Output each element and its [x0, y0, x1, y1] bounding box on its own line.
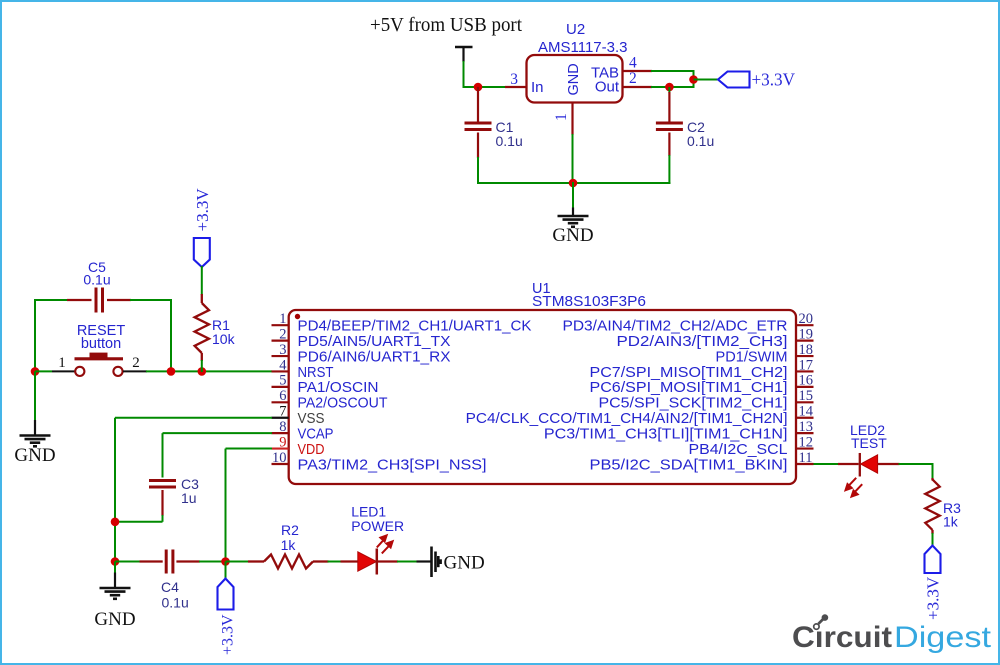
pin 4 TAB stub [622, 70, 652, 72]
svg-text:0.1u: 0.1u [687, 133, 714, 149]
svg-text:PC3/TIM1_CH3[TLI][TIM1_CH1N]: PC3/TIM1_CH3[TLI][TIM1_CH1N] [544, 426, 788, 442]
svg-text:10k: 10k [212, 331, 236, 347]
power symbol +5V bar [455, 46, 473, 49]
capacitor C2 [668, 87, 670, 93]
op-amp U2 regulator AMS1117-3.3 box [527, 55, 623, 103]
wire VDD vertical [225, 449, 227, 563]
wire TAB to corner [651, 70, 694, 72]
svg-text:PC5/SPI_SCK[TIM2_CH1]: PC5/SPI_SCK[TIM2_CH1] [599, 396, 788, 412]
LED2 diode [838, 463, 859, 465]
capacitor C3 [149, 479, 176, 482]
svg-text:5: 5 [279, 373, 286, 389]
svg-text:NRST: NRST [298, 365, 334, 381]
svg-text:TEST: TEST [851, 435, 887, 451]
wire R3 to flag [932, 533, 934, 547]
svg-text:Out: Out [595, 79, 620, 96]
pin 13 PC3/TIM1_CH3[TLI][TIM1_CH1N] [796, 432, 814, 434]
pin 3 stub of U2 [505, 86, 527, 88]
wire R2 to LED1 [328, 561, 342, 563]
wire to +3.3V flag [694, 79, 719, 81]
svg-text:11: 11 [799, 450, 813, 466]
svg-text:R2: R2 [281, 522, 299, 538]
svg-text:VDD: VDD [298, 442, 325, 458]
svg-text:PB5/I2C_SDA[TIM1_BKIN]: PB5/I2C_SDA[TIM1_BKIN] [590, 457, 788, 473]
pin 10 PA3/TIM2_CH3[SPI_NSS] [272, 463, 289, 465]
pin 12 PB4/I2C_SCL [796, 447, 814, 449]
wire C4 to node [199, 561, 227, 563]
svg-text:PC7/SPI_MISO[TIM1_CH2]: PC7/SPI_MISO[TIM1_CH2] [590, 365, 788, 381]
svg-text:2: 2 [279, 326, 286, 342]
node junction C3/VSS [111, 518, 120, 527]
svg-text:18: 18 [799, 342, 814, 358]
wire LED2 to corner [899, 463, 934, 465]
svg-text:GND: GND [14, 445, 55, 466]
wire VCAP to pin 8 [163, 432, 273, 434]
wire C3 bottom to node [162, 515, 164, 522]
svg-text:PD5/AIN5/UART1_TX: PD5/AIN5/UART1_TX [298, 334, 451, 350]
svg-text:1: 1 [553, 113, 570, 121]
svg-text:GND: GND [444, 553, 485, 574]
node junction to +3.3V flag [689, 75, 698, 84]
pin 16 PC6/SPI_MOSI[TIM1_CH1] [796, 386, 814, 388]
LED1 emission arrows [377, 535, 393, 553]
svg-text:4: 4 [629, 55, 637, 72]
svg-text:+5V from USB port: +5V from USB port [370, 14, 522, 36]
power flag +3.3V (bottom right) [925, 546, 941, 574]
svg-text:19: 19 [799, 326, 814, 342]
wire C5 right leg down [170, 299, 172, 372]
svg-text:C4: C4 [161, 579, 179, 595]
wire node to C4 [115, 561, 141, 563]
pin 8 VCAP [272, 432, 289, 434]
svg-text:15: 15 [799, 388, 814, 404]
svg-text:VCAP: VCAP [298, 426, 334, 442]
svg-text:2: 2 [629, 70, 637, 87]
ground symbol GNDPWR (right of LED1) [417, 560, 432, 562]
svg-text:PA1/OSCIN: PA1/OSCIN [298, 380, 379, 396]
svg-text:STM8S103F3P6: STM8S103F3P6 [532, 293, 646, 310]
logo CircuitDigest [792, 614, 992, 654]
ground rail wire [477, 182, 670, 184]
pin 15 PC5/SPI_SCK[TIM2_CH1] [796, 401, 814, 403]
svg-text:PD2/AIN3/[TIM2_CH3]: PD2/AIN3/[TIM2_CH3] [617, 334, 788, 350]
pin 3 PD6/AIN6/UART1_RX [272, 355, 289, 357]
node junction ground rail [569, 179, 578, 188]
svg-text:0.1u: 0.1u [496, 133, 523, 149]
power flag +3.3V above R1 [194, 238, 210, 267]
pin 2 PD5/AIN5/UART1_TX [272, 340, 289, 342]
node junction C5/button [167, 367, 176, 376]
wire LED1 to GND [397, 561, 418, 563]
svg-text:Cırcuit: Cırcuit [792, 621, 892, 654]
node junction at C1/In [474, 83, 483, 92]
ground symbol (top) [572, 208, 574, 217]
svg-text:3: 3 [279, 342, 286, 358]
pin 14 PC4/CLK_CCO/TIM1_CH4/AIN2/[TIM1_CH2N] [796, 417, 814, 419]
svg-text:PD6/AIN6/UART1_RX: PD6/AIN6/UART1_RX [298, 349, 451, 365]
wire U2 GND pin down to rail [572, 134, 574, 184]
pin 18 PD1/SWIM [796, 355, 814, 357]
svg-text:1u: 1u [181, 490, 197, 506]
svg-text:+3.3V: +3.3V [752, 70, 796, 90]
pin 1 PD4/BEEP/TIM2_CH1/UART1_CK [272, 324, 289, 326]
pin 9 VDD [272, 447, 289, 449]
capacitor C5 [36, 299, 68, 301]
svg-text:13: 13 [799, 419, 814, 435]
svg-text:0.1u: 0.1u [162, 595, 189, 611]
wire flag to R1 [201, 266, 203, 295]
wire VDD to pin 9 [226, 448, 273, 450]
svg-text:GND: GND [94, 609, 135, 630]
pin 7 VSS [272, 417, 289, 419]
svg-text:1: 1 [58, 355, 66, 371]
wire node to flag [225, 562, 227, 580]
wire node to R2 [226, 561, 250, 563]
pin 19 PD2/AIN3/[TIM2_CH3] [796, 340, 814, 342]
node junction left [31, 367, 40, 376]
svg-text:PD4/BEEP/TIM2_CH1/UART1_CK: PD4/BEEP/TIM2_CH1/UART1_CK [298, 319, 532, 335]
svg-text:9: 9 [279, 434, 286, 450]
svg-text:7: 7 [279, 404, 286, 420]
pin 1 GND stub down [571, 102, 573, 135]
wire C5 left leg down [34, 299, 36, 372]
svg-text:PD1/SWIM: PD1/SWIM [716, 349, 788, 365]
svg-text:12: 12 [799, 434, 814, 450]
resistor R1 10k [201, 294, 203, 303]
wire vertical TAB-Out join [693, 70, 695, 88]
capacitor C1 [477, 87, 479, 122]
wire VCAP vertical to C3 [162, 433, 164, 477]
svg-text:+3.3V: +3.3V [220, 614, 237, 655]
svg-text:LED1: LED1 [351, 504, 386, 520]
pin 11 PB5/I2C_SDA[TIM1_BKIN] [796, 463, 814, 465]
pin 17 PC7/SPI_MISO[TIM1_CH2] [796, 370, 814, 372]
svg-text:PD3/AIN4/TIM2_CH2/ADC_ETR: PD3/AIN4/TIM2_CH2/ADC_ETR [563, 319, 788, 335]
pin 5 PA1/OSCIN [272, 386, 289, 388]
power flag +3.3V (bottom middle) [218, 579, 234, 610]
op-amp U1 STM8S103F3P6 box [289, 310, 796, 484]
wire +5V to node [463, 61, 465, 88]
wire C1 to ground rail [477, 157, 479, 184]
pin 20 PD3/AIN4/TIM2_CH2/ADC_ETR [796, 324, 814, 326]
svg-text:AMS1117-3.3: AMS1117-3.3 [538, 39, 628, 56]
wire R1 to node [201, 360, 203, 372]
svg-text:+3.3V: +3.3V [924, 576, 943, 620]
resistor R2 1k [248, 560, 264, 562]
svg-text:POWER: POWER [351, 518, 404, 534]
pin 4 NRST [272, 370, 289, 372]
svg-text:GND: GND [552, 225, 593, 246]
LED1 diode [341, 560, 358, 562]
svg-text:20: 20 [799, 311, 814, 327]
svg-text:GND: GND [566, 63, 582, 95]
svg-text:1: 1 [279, 311, 286, 327]
power flag +3.3V (top right) [718, 72, 750, 88]
svg-text:6: 6 [279, 388, 286, 404]
svg-text:1k: 1k [281, 537, 297, 553]
svg-text:PC4/CLK_CCO/TIM1_CH4/AIN2/[TIM: PC4/CLK_CCO/TIM1_CH4/AIN2/[TIM1_CH2N] [466, 411, 788, 427]
node junction R1 bottom [198, 367, 207, 376]
svg-text:1k: 1k [943, 514, 959, 530]
svg-text:0.1u: 0.1u [83, 272, 110, 288]
svg-text:PA2/OSCOUT: PA2/OSCOUT [298, 396, 388, 412]
svg-text:PB4/I2C_SCL: PB4/I2C_SCL [689, 442, 788, 458]
switch SW1 RESET button [52, 370, 75, 372]
svg-text:17: 17 [799, 357, 814, 373]
svg-text:10: 10 [272, 450, 287, 466]
wire to GND symbol [572, 182, 574, 208]
ground symbol (bottom middle) [114, 562, 116, 574]
svg-text:button: button [81, 336, 121, 352]
pin 1 marker dot [295, 314, 300, 319]
node junction C4/VSS [111, 557, 120, 566]
wire left node to GND [34, 371, 36, 420]
svg-text:16: 16 [799, 373, 814, 389]
LED2 emission arrows [846, 478, 863, 497]
capacitor C4 [140, 560, 163, 562]
ground symbol (left) [34, 420, 36, 436]
svg-text:U2: U2 [566, 21, 585, 38]
wire C2 to ground rail [668, 155, 670, 184]
pin 2 Out stub [622, 86, 652, 88]
svg-text:4: 4 [279, 357, 287, 373]
pin 6 PA2/OSCOUT [272, 401, 289, 403]
svg-text:3: 3 [510, 71, 518, 88]
wire VSS to pin 7 [115, 417, 272, 419]
svg-text:PA3/TIM2_CH3[SPI_NSS]: PA3/TIM2_CH3[SPI_NSS] [298, 457, 487, 473]
svg-text:VSS: VSS [298, 411, 325, 427]
svg-text:+3.3V: +3.3V [193, 188, 212, 232]
svg-text:2: 2 [132, 355, 140, 371]
wire button to NRST [146, 370, 272, 372]
resistor R3 1k [931, 478, 933, 481]
wire pin11 to LED2 [814, 463, 840, 465]
node junction VDD/+3.3V [221, 557, 230, 566]
wire Out to corner [651, 86, 694, 88]
wire VSS vertical [114, 418, 116, 573]
svg-text:Digest: Digest [894, 621, 992, 654]
node junction Out/C2 [665, 83, 674, 92]
svg-text:In: In [531, 79, 544, 96]
svg-text:14: 14 [799, 404, 814, 420]
svg-text:8: 8 [279, 419, 286, 435]
svg-text:PC6/SPI_MOSI[TIM1_CH1]: PC6/SPI_MOSI[TIM1_CH1] [590, 380, 788, 396]
wire node to button pin1 [35, 370, 52, 372]
